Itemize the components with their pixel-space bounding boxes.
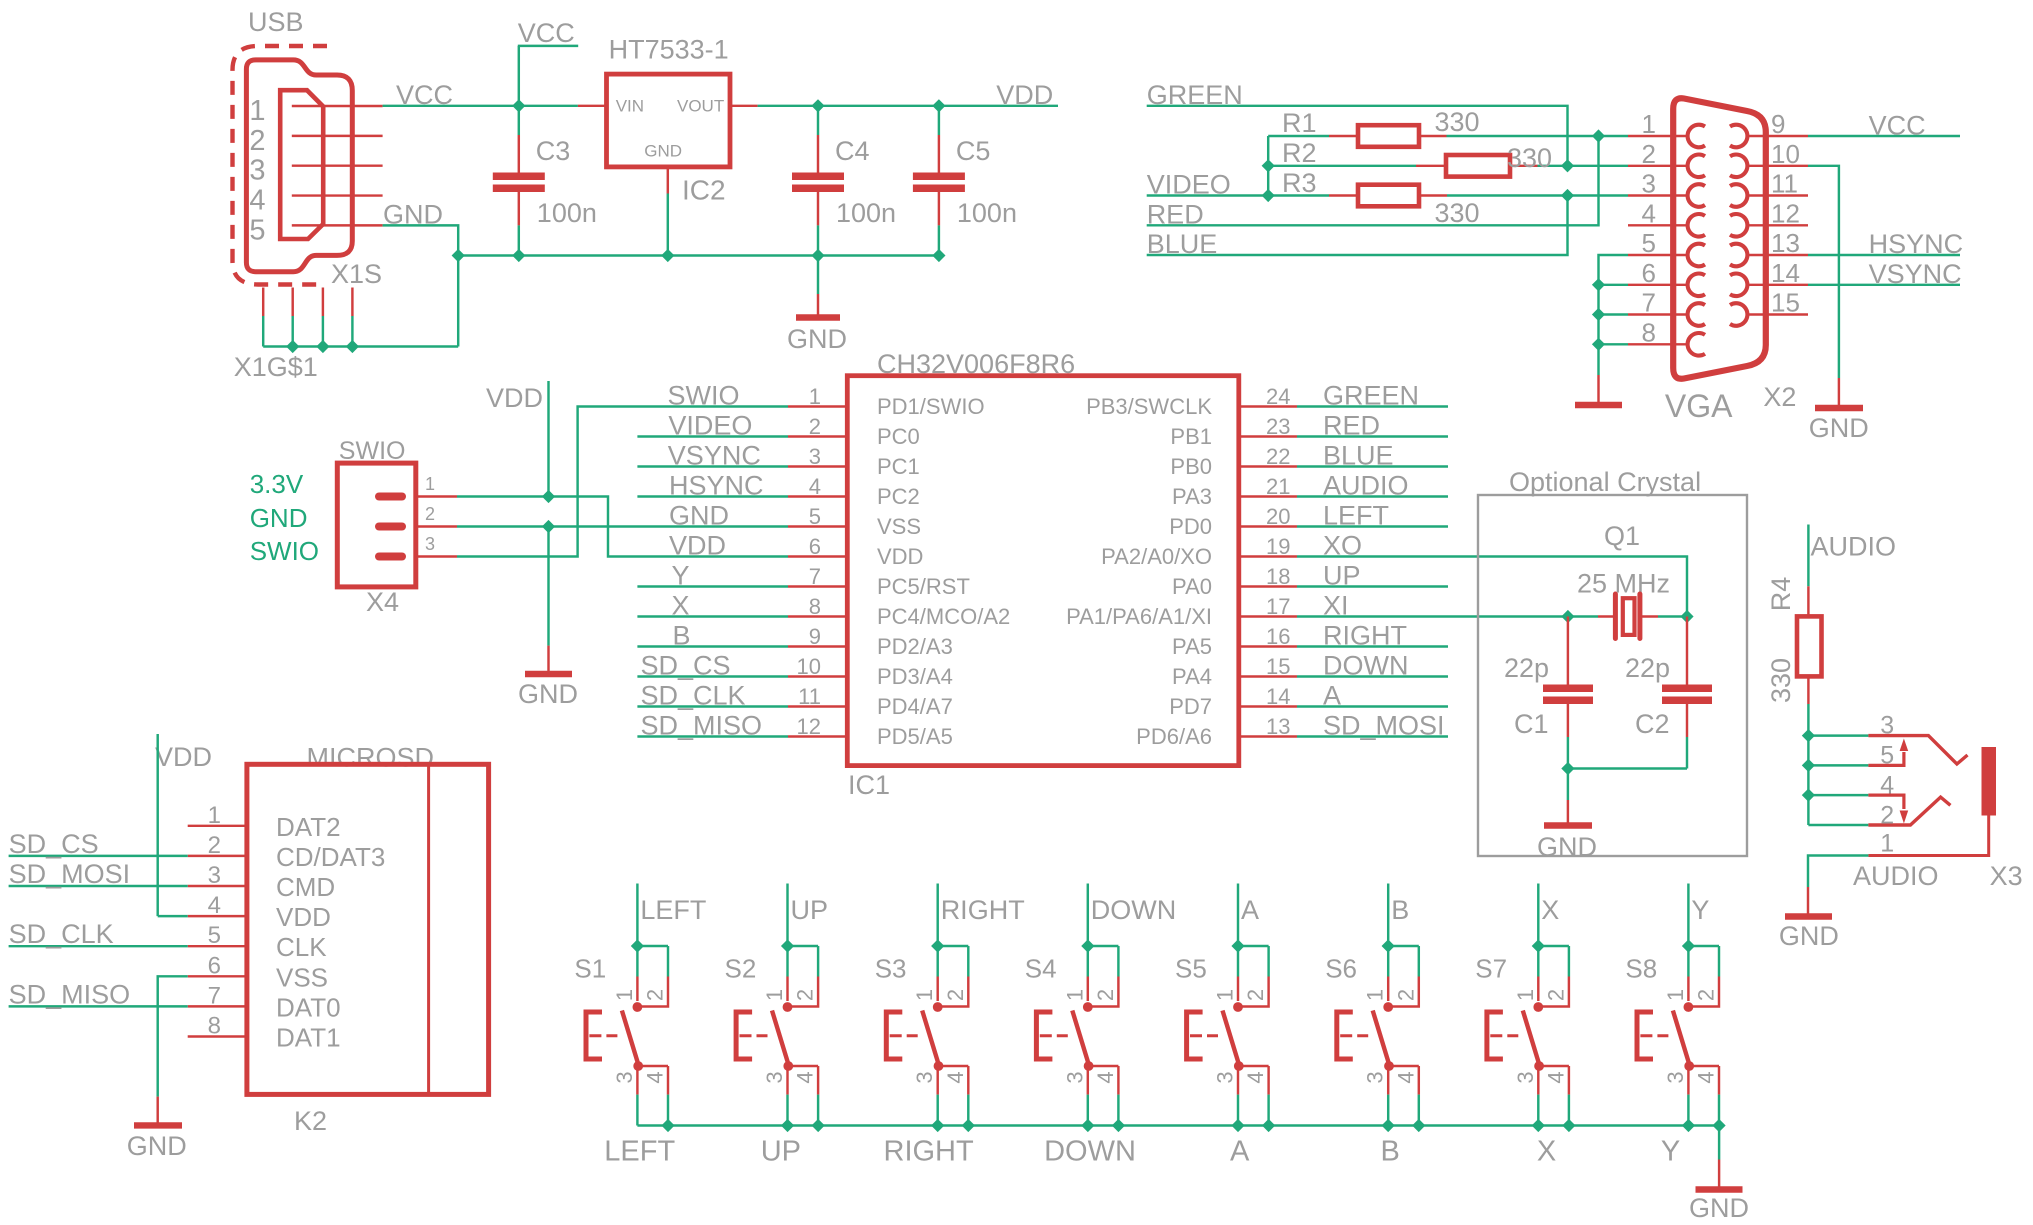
- svg-text:IC1: IC1: [848, 770, 890, 800]
- svg-text:1: 1: [1663, 989, 1688, 1001]
- net A wire (switch top): [1237, 884, 1239, 947]
- junction XO / C2: [1680, 610, 1693, 623]
- svg-text:PA4: PA4: [1172, 664, 1212, 689]
- switch S5: [1238, 945, 1269, 947]
- switch S4: [1088, 945, 1119, 947]
- wire jack pin5: [1808, 764, 1868, 766]
- svg-text:3: 3: [762, 1071, 787, 1083]
- svg-text:22p: 22p: [1504, 653, 1549, 683]
- net BLUE wire: [1147, 196, 1568, 256]
- junction pin1 / RED: [1592, 129, 1605, 142]
- svg-text:PA3: PA3: [1172, 484, 1212, 509]
- svg-text:3: 3: [425, 534, 435, 554]
- net VSYNC wire (IC1 pin3): [637, 465, 788, 467]
- svg-text:VDD: VDD: [669, 531, 726, 561]
- svg-text:DOWN: DOWN: [1323, 651, 1408, 681]
- junction S5 top: [1231, 939, 1244, 952]
- svg-text:A: A: [1323, 681, 1341, 711]
- net Y wire (switch top): [1687, 884, 1689, 947]
- svg-text:HSYNC: HSYNC: [1869, 229, 1964, 259]
- IC1 pin 13 (PD6/A6): [1239, 735, 1297, 737]
- wire VGA pins 5-8 gnd rail: [1599, 255, 1629, 375]
- svg-text:PD2/A3: PD2/A3: [877, 634, 953, 659]
- svg-text:SD_MOSI: SD_MOSI: [9, 859, 131, 889]
- svg-text:PB0: PB0: [1170, 454, 1212, 479]
- svg-text:5: 5: [208, 922, 221, 949]
- IC1 pin 12 (PD5/A5): [788, 735, 847, 737]
- X2 contact pin 1: [1688, 125, 1705, 148]
- IC1 pin 11 (PD4/A7): [788, 705, 847, 707]
- K2 pin 4 (VDD): [188, 915, 247, 917]
- net SD_CLK wire (IC1 pin11): [637, 705, 788, 707]
- svg-text:VDD: VDD: [155, 742, 212, 772]
- wire jack pin2: [1808, 824, 1868, 826]
- junction S1 top: [631, 939, 644, 952]
- junction S4 pin3: [1081, 1119, 1094, 1132]
- IC1 pin 2 (PC0): [788, 435, 847, 437]
- svg-text:1: 1: [1213, 989, 1238, 1001]
- svg-text:8: 8: [809, 594, 821, 619]
- capacitor C1: [1567, 617, 1569, 685]
- resistor R2: [1268, 165, 1416, 167]
- svg-text:SD_MISO: SD_MISO: [641, 711, 763, 741]
- svg-text:IC2: IC2: [682, 175, 726, 206]
- svg-text:S2: S2: [725, 954, 757, 984]
- svg-text:R2: R2: [1282, 138, 1317, 168]
- K2 pin 8 (DAT1): [188, 1035, 247, 1037]
- svg-text:11: 11: [798, 684, 821, 709]
- IC1 pin 9 (PD2/A3): [788, 645, 847, 647]
- switch S2: [788, 945, 819, 947]
- svg-text:VSYNC: VSYNC: [668, 441, 761, 471]
- svg-text:9: 9: [1771, 109, 1785, 139]
- X3 pin2 contact: [1868, 797, 1950, 825]
- svg-text:10: 10: [797, 654, 821, 679]
- svg-text:Optional Crystal: Optional Crystal: [1509, 467, 1701, 497]
- svg-text:1: 1: [809, 384, 821, 409]
- svg-text:S7: S7: [1475, 954, 1507, 984]
- svg-text:330: 330: [1435, 198, 1480, 228]
- junction pin2 / GREEN: [1561, 159, 1574, 172]
- svg-text:100n: 100n: [957, 198, 1017, 228]
- svg-text:14: 14: [1266, 684, 1290, 709]
- svg-text:S4: S4: [1025, 954, 1057, 984]
- svg-text:RIGHT: RIGHT: [1323, 621, 1407, 651]
- svg-text:S8: S8: [1625, 954, 1657, 984]
- X3 pin5 switch arrow: [1868, 752, 1904, 765]
- wire crystal gnd bus: [1568, 767, 1687, 769]
- net VSYNC wire: [1808, 284, 1960, 286]
- svg-text:8: 8: [208, 1013, 221, 1040]
- wire X1 shield bus: [263, 345, 458, 347]
- svg-text:VIN: VIN: [616, 97, 644, 116]
- svg-text:14: 14: [1771, 258, 1800, 288]
- IC1 pin 7 (PC5/RST): [788, 585, 847, 587]
- svg-text:3: 3: [249, 155, 265, 187]
- svg-text:2: 2: [793, 989, 818, 1001]
- svg-text:PC2: PC2: [877, 484, 920, 509]
- svg-text:S1: S1: [574, 954, 606, 984]
- IC1 pin 22 (PB0): [1239, 465, 1297, 467]
- svg-text:22: 22: [1266, 444, 1290, 469]
- K2 pin 5 (CLK): [188, 945, 247, 947]
- junction R3 input: [1262, 189, 1275, 202]
- svg-text:A: A: [1230, 1136, 1250, 1168]
- svg-text:17: 17: [1266, 594, 1290, 619]
- net A wire (IC1 pin14): [1297, 705, 1448, 707]
- wire VDD to K2 pin4: [158, 915, 188, 917]
- svg-text:4: 4: [809, 474, 821, 499]
- svg-text:VIDEO: VIDEO: [668, 411, 752, 441]
- svg-text:1: 1: [425, 474, 435, 494]
- ground GND (regulator): [817, 256, 819, 295]
- svg-text:SD_MOSI: SD_MOSI: [1323, 711, 1445, 741]
- svg-text:GND: GND: [518, 679, 578, 709]
- net RED wire (IC1 pin23): [1297, 435, 1448, 437]
- junction S1 pin4: [661, 1119, 674, 1132]
- svg-text:B: B: [673, 621, 691, 651]
- svg-text:5: 5: [1642, 228, 1656, 258]
- svg-text:PD1/SWIO: PD1/SWIO: [877, 394, 985, 419]
- net AUDIO wire (IC1 pin21): [1297, 495, 1448, 497]
- svg-text:R3: R3: [1282, 168, 1317, 198]
- svg-text:2: 2: [1543, 989, 1568, 1001]
- wire X4 pin3 SWIO route: [457, 407, 788, 557]
- junction pin7: [1592, 308, 1605, 321]
- switch S3: [938, 945, 969, 947]
- svg-text:4: 4: [208, 892, 221, 919]
- junction XI / C1: [1561, 610, 1574, 623]
- X1 pin 5: [292, 224, 383, 226]
- svg-text:DAT1: DAT1: [276, 1023, 341, 1053]
- IC1 pin 24 (PB3/SWCLK): [1239, 405, 1297, 407]
- K2 pin 2 (CD/DAT3): [188, 855, 247, 857]
- net Y wire (IC1 pin7): [637, 585, 788, 587]
- net SD_MISO wire: [9, 1005, 188, 1007]
- svg-text:3.3V: 3.3V: [250, 469, 304, 499]
- junction S6 pin4: [1412, 1119, 1425, 1132]
- net XI wire (IC1 pin17): [1297, 615, 1568, 617]
- svg-text:7: 7: [809, 564, 821, 589]
- svg-text:RED: RED: [1323, 411, 1380, 441]
- net DOWN wire (switch top): [1087, 884, 1089, 947]
- svg-text:2: 2: [1642, 139, 1656, 169]
- svg-text:VSS: VSS: [877, 514, 921, 539]
- net HSYNC wire: [1808, 254, 1960, 256]
- svg-text:25 MHz: 25 MHz: [1577, 569, 1670, 599]
- IC1 pin 5 (VSS): [788, 525, 847, 527]
- X2 contact pin 4: [1688, 214, 1705, 237]
- X2 contact pin 12: [1730, 214, 1747, 237]
- ground GND (switches): [1718, 1126, 1720, 1160]
- IC1 pin 20 (PD0): [1239, 525, 1297, 527]
- wire gnd bus: [458, 254, 939, 256]
- svg-text:B: B: [1391, 895, 1409, 925]
- ground (VGA left): [1597, 375, 1599, 405]
- svg-text:C5: C5: [956, 136, 991, 166]
- svg-text:C1: C1: [1514, 709, 1549, 739]
- net RED wire: [1147, 136, 1599, 225]
- svg-text:UP: UP: [761, 1136, 801, 1168]
- junction S5 pin4: [1262, 1119, 1275, 1132]
- junction S3 pin4: [962, 1119, 975, 1132]
- IC1 box: [847, 376, 1239, 766]
- svg-text:USB: USB: [248, 7, 304, 37]
- svg-text:UP: UP: [791, 895, 829, 925]
- svg-text:GND: GND: [1779, 921, 1839, 951]
- net SD_CLK wire: [9, 945, 188, 947]
- svg-text:100n: 100n: [836, 198, 896, 228]
- X2 contact pin 6: [1688, 273, 1705, 296]
- junction S3 pin3: [931, 1119, 944, 1132]
- junction S8 top: [1682, 939, 1695, 952]
- svg-text:SD_MISO: SD_MISO: [9, 979, 131, 1009]
- svg-text:1: 1: [612, 989, 637, 1001]
- connector K2 box: [247, 764, 489, 1094]
- svg-text:RIGHT: RIGHT: [884, 1136, 975, 1168]
- svg-text:VCC: VCC: [518, 18, 575, 48]
- svg-text:LEFT: LEFT: [604, 1136, 675, 1168]
- svg-text:X1G$1: X1G$1: [234, 352, 318, 382]
- svg-text:PD3/A4: PD3/A4: [877, 664, 953, 689]
- svg-text:K2: K2: [294, 1106, 327, 1136]
- junction VDD: [542, 490, 555, 503]
- svg-text:DOWN: DOWN: [1091, 895, 1176, 925]
- svg-text:VDD: VDD: [276, 902, 331, 932]
- junction C4 gnd: [811, 249, 824, 262]
- X2 contact pin 10: [1730, 155, 1747, 178]
- X2 contact pin 15: [1730, 303, 1747, 326]
- svg-text:3: 3: [208, 862, 221, 889]
- K2 pin 6 (VSS): [188, 975, 247, 977]
- wire AUDIO to R4: [1807, 525, 1809, 587]
- junction pin3 / BLUE: [1561, 189, 1574, 202]
- svg-text:GREEN: GREEN: [1323, 381, 1419, 411]
- IC1 pin 15 (PA4): [1239, 675, 1297, 677]
- net X wire (IC1 pin8): [637, 615, 788, 617]
- X1 pin 4: [292, 194, 383, 196]
- svg-text:1: 1: [912, 989, 937, 1001]
- svg-text:PC4/MCO/A2: PC4/MCO/A2: [877, 604, 1010, 629]
- svg-text:GND: GND: [127, 1131, 187, 1161]
- svg-text:PC5/RST: PC5/RST: [877, 574, 970, 599]
- IC1 pin 3 (PC1): [788, 465, 847, 467]
- svg-text:9: 9: [809, 624, 821, 649]
- IC1 pin 14 (PD7): [1239, 705, 1297, 707]
- capacitor C3: [518, 106, 520, 135]
- net GREEN wire (IC1 pin24): [1297, 405, 1448, 407]
- svg-text:16: 16: [1266, 624, 1290, 649]
- svg-text:XI: XI: [1323, 591, 1349, 621]
- X1 pin 2: [292, 135, 383, 137]
- X1 pin 1: [292, 105, 383, 107]
- capacitor C2: [1686, 617, 1688, 685]
- svg-text:1: 1: [1880, 830, 1894, 858]
- junction C5 gnd: [932, 249, 945, 262]
- svg-text:4: 4: [1694, 1071, 1719, 1083]
- switch S7: [1538, 945, 1569, 947]
- X3 pin4 switch arrow: [1868, 795, 1904, 809]
- svg-text:LEFT: LEFT: [640, 895, 706, 925]
- junction S7 pin4: [1562, 1119, 1575, 1132]
- net DOWN wire (IC1 pin15): [1297, 675, 1448, 677]
- svg-text:DAT2: DAT2: [276, 812, 341, 842]
- junction S2 pin3: [781, 1119, 794, 1132]
- IC1 pin 4 (PC2): [788, 495, 847, 497]
- svg-text:4: 4: [1880, 772, 1894, 800]
- svg-text:5: 5: [249, 214, 265, 246]
- X2 contact pin 13: [1730, 244, 1747, 267]
- svg-text:C2: C2: [1635, 709, 1670, 739]
- IC1 pin 19 (PA2/A0/XO): [1239, 555, 1297, 557]
- svg-text:CLK: CLK: [276, 932, 327, 962]
- net LEFT wire (switch top): [636, 884, 638, 947]
- svg-text:2: 2: [943, 989, 968, 1001]
- svg-text:GND: GND: [250, 503, 308, 533]
- wire jack pin4: [1808, 794, 1868, 796]
- svg-text:RIGHT: RIGHT: [941, 895, 1025, 925]
- svg-text:3: 3: [1642, 169, 1656, 199]
- svg-text:PC0: PC0: [877, 424, 920, 449]
- svg-text:4: 4: [1393, 1071, 1418, 1083]
- net LEFT wire (IC1 pin20): [1297, 525, 1448, 527]
- wire K2 pin6 VSS to gnd: [158, 976, 188, 1096]
- svg-text:3: 3: [1213, 1071, 1238, 1083]
- junction shield 3: [346, 340, 359, 353]
- junction jack pin5: [1802, 759, 1815, 772]
- svg-text:7: 7: [1642, 288, 1656, 318]
- svg-text:GND: GND: [1537, 832, 1597, 862]
- net SD_MOSI wire (IC1 pin13): [1297, 735, 1448, 737]
- svg-text:PD7: PD7: [1169, 694, 1212, 719]
- svg-text:GND: GND: [644, 142, 682, 161]
- svg-text:11: 11: [1771, 169, 1798, 199]
- svg-text:5: 5: [1880, 742, 1894, 770]
- junction C4 top: [811, 99, 824, 112]
- junction S8 pin3: [1682, 1119, 1695, 1132]
- svg-text:3: 3: [1062, 1071, 1087, 1083]
- junction S8 pin4: [1712, 1119, 1725, 1132]
- wire X4 pin1 VDD route: [457, 497, 788, 557]
- svg-text:VDD: VDD: [486, 383, 543, 413]
- svg-text:SD_CLK: SD_CLK: [641, 681, 746, 711]
- svg-text:SD_CLK: SD_CLK: [9, 919, 114, 949]
- X2 contact pin 5: [1688, 244, 1705, 267]
- net HSYNC wire (IC1 pin4): [637, 495, 788, 497]
- svg-text:LEFT: LEFT: [1323, 501, 1389, 531]
- svg-text:6: 6: [208, 952, 221, 979]
- svg-text:GND: GND: [1689, 1193, 1749, 1223]
- IC1 pin 6 (VDD): [788, 555, 847, 557]
- connector X2 VGA outline: [1673, 98, 1766, 379]
- junction C5 top: [932, 99, 945, 112]
- svg-text:PC1: PC1: [877, 454, 920, 479]
- svg-text:GND: GND: [787, 324, 847, 354]
- svg-text:22p: 22p: [1625, 653, 1670, 683]
- svg-text:HT7533-1: HT7533-1: [609, 35, 729, 65]
- X3 jack sleeve: [1982, 747, 1997, 816]
- net SD_CS wire: [9, 855, 188, 857]
- connector X1 dashed shield outline: [233, 46, 328, 285]
- svg-text:4: 4: [793, 1071, 818, 1083]
- svg-text:15: 15: [1771, 288, 1800, 318]
- svg-text:21: 21: [1266, 474, 1290, 499]
- svg-text:VDD: VDD: [877, 544, 923, 569]
- svg-text:15: 15: [1266, 654, 1290, 679]
- svg-text:R1: R1: [1282, 108, 1317, 138]
- svg-text:XO: XO: [1323, 531, 1362, 561]
- K2 pin 1 (DAT2): [188, 825, 247, 827]
- svg-text:CD/DAT3: CD/DAT3: [276, 842, 385, 872]
- svg-text:5: 5: [809, 504, 821, 529]
- svg-text:1: 1: [1363, 989, 1388, 1001]
- svg-text:S5: S5: [1175, 954, 1207, 984]
- ground GND (below X4): [547, 527, 549, 646]
- svg-text:2: 2: [1880, 802, 1894, 830]
- wire switch gnd bus: [637, 1124, 1719, 1126]
- svg-text:1: 1: [249, 95, 265, 127]
- wire VDD vertical (microSD): [156, 734, 158, 916]
- junction S4 top: [1081, 939, 1094, 952]
- net BLUE wire (IC1 pin22): [1297, 465, 1448, 467]
- net VCC wire (VGA pin9): [1808, 135, 1960, 137]
- net B wire (switch top): [1387, 884, 1389, 947]
- svg-text:330: 330: [1766, 658, 1796, 703]
- svg-text:PB1: PB1: [1170, 424, 1212, 449]
- svg-text:HSYNC: HSYNC: [669, 471, 764, 501]
- resistor R1: [1268, 135, 1329, 137]
- junction crystal gnd: [1561, 762, 1574, 775]
- junction GND: [452, 249, 465, 262]
- svg-text:S6: S6: [1325, 954, 1357, 984]
- junction R2 input: [1262, 159, 1275, 172]
- svg-text:AUDIO: AUDIO: [1323, 471, 1409, 501]
- ground GND (audio): [1807, 887, 1809, 917]
- X2 contact pin 2: [1688, 155, 1705, 178]
- svg-text:PD4/A7: PD4/A7: [877, 694, 953, 719]
- svg-text:R4: R4: [1766, 577, 1796, 612]
- net SD_MISO wire (IC1 pin12): [637, 735, 788, 737]
- svg-text:2: 2: [809, 414, 821, 439]
- svg-text:2: 2: [1093, 989, 1118, 1001]
- IC1 pin 8 (PC4/MCO/A2): [788, 615, 847, 617]
- wire VGA pin10 to gnd: [1808, 166, 1839, 378]
- svg-text:1: 1: [1642, 109, 1656, 139]
- svg-text:PA0: PA0: [1172, 574, 1212, 599]
- svg-text:3: 3: [612, 1071, 637, 1083]
- svg-text:VSS: VSS: [276, 962, 328, 992]
- net VDD wire: [758, 105, 1058, 107]
- junction pin6: [1592, 278, 1605, 291]
- junction S6 pin3: [1382, 1119, 1395, 1132]
- svg-text:3: 3: [1880, 712, 1894, 740]
- svg-text:Q1: Q1: [1604, 521, 1640, 551]
- svg-text:X1S: X1S: [331, 259, 382, 289]
- svg-text:4: 4: [249, 185, 265, 217]
- svg-text:VCC: VCC: [1869, 111, 1926, 141]
- svg-text:SD_CS: SD_CS: [641, 651, 731, 681]
- svg-text:20: 20: [1266, 504, 1290, 529]
- IC1 pin 16 (PA5): [1239, 645, 1297, 647]
- svg-text:8: 8: [1642, 317, 1656, 347]
- svg-text:3: 3: [1663, 1071, 1688, 1083]
- svg-text:19: 19: [1266, 534, 1290, 559]
- capacitor C4: [817, 106, 819, 135]
- svg-text:GND: GND: [669, 501, 729, 531]
- junction VCC: [512, 99, 525, 112]
- switch S6: [1388, 945, 1419, 947]
- svg-text:4: 4: [1093, 1071, 1118, 1083]
